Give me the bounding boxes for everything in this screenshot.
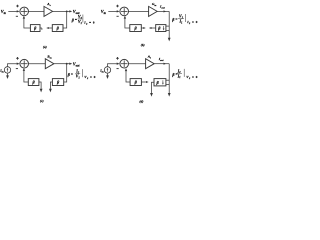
feedback network beta sensing box (d) [154, 79, 166, 86]
feedback network beta sensing box (c) [52, 79, 63, 86]
wire amplifier to output node (c) [54, 63, 67, 65]
amplifier G_m (b) [149, 6, 158, 16]
ground arrow at output (d) [168, 93, 171, 97]
caption (c) [40, 99, 44, 103]
wire amplifier to output corner with current arrow (b) [157, 10, 169, 12]
ground arrow at output (b) [168, 38, 171, 42]
current source Iin (d) [104, 67, 110, 73]
wire feedback box to summer with arrow (a) [23, 16, 31, 28]
summing junction (d) [120, 59, 129, 68]
wire Vin to summing junction (b) [108, 10, 119, 12]
feedback network beta return box (b) [130, 25, 142, 32]
amplifier A_i (d) [146, 59, 155, 69]
svg-text:=: = [71, 73, 73, 77]
svg-text:β: β [32, 80, 36, 85]
open port stub with right arrow (d) [141, 81, 148, 83]
svg-text:V1: V1 [76, 74, 81, 80]
plus sign at summer input (d) [116, 57, 119, 60]
node Vout label (a) [73, 9, 80, 15]
label G_m [152, 2, 157, 7]
label Iout (d) [158, 57, 164, 62]
arrow V2 output of beta network pointing left (a) [46, 27, 52, 29]
label A_v [46, 2, 51, 7]
wire current source to summer (c) [8, 63, 20, 67]
svg-text:Vout: Vout [73, 61, 80, 67]
svg-text:Vin: Vin [101, 9, 107, 15]
wire output down through feedback port to ground (b) [168, 11, 170, 38]
svg-text:Av: Av [46, 2, 51, 7]
current source Iin label (d) [99, 68, 104, 73]
svg-text:β: β [157, 26, 161, 31]
plus sign at summer input (a) [16, 5, 19, 8]
svg-text:β: β [156, 80, 160, 85]
svg-text:Iin: Iin [0, 68, 4, 73]
node Vin (panel b input label) [101, 9, 107, 15]
svg-text:Iin: Iin [99, 68, 104, 73]
shorted port stub to ground (d) [150, 82, 154, 96]
arrow to Vout (a) [67, 10, 73, 12]
wire summer to amplifier (b) [129, 10, 149, 12]
current arrow inside beta box (b) [163, 26, 165, 31]
svg-text:Ai: Ai [147, 54, 151, 59]
minus sign at feedback input (b) [117, 15, 119, 17]
wire summer to amplifier (a) [29, 10, 45, 12]
formula beta = I2/V1 at V2=0 (c) [67, 69, 96, 80]
minus sign at feedback input (a) [16, 15, 18, 17]
feedback network beta sensing box (a) [52, 25, 63, 32]
wire amplifier to output corner with current arrow (d) [154, 63, 169, 65]
svg-text:Vin: Vin [1, 9, 7, 15]
wire summer to amplifier (d) [129, 63, 146, 65]
svg-text:I2 = 0: I2 = 0 [83, 21, 95, 26]
summing junction (a) [20, 7, 29, 16]
node Vin (panel a input label) [1, 9, 7, 15]
current arrow inside beta box (d) [162, 80, 164, 85]
amplifier A_v (a) [44, 6, 53, 16]
svg-text:Gm: Gm [152, 2, 157, 7]
label R_m [47, 54, 51, 59]
svg-text:V2 = 0: V2 = 0 [186, 75, 198, 80]
shorted port stub to ground (c left) [39, 82, 43, 92]
wire feedback box to summer with arrow (b) [124, 16, 130, 28]
svg-text:Iout: Iout [159, 5, 165, 10]
summing junction (b) [120, 7, 129, 16]
svg-text:β: β [134, 80, 138, 85]
output node junction dot (a) [66, 10, 68, 12]
feedback network beta return box (d) [130, 79, 141, 86]
wire feedback box to summer with arrow (c) [23, 68, 29, 82]
feedback network beta return box (a) [30, 25, 40, 32]
svg-text:β: β [56, 80, 60, 85]
amplifier R_m (c) [45, 59, 54, 69]
feedback network beta return box (c) [28, 79, 39, 86]
svg-text:I2 = 0: I2 = 0 [186, 20, 198, 25]
svg-text:(d): (d) [139, 100, 143, 104]
minus sign at feedback input (d) [117, 68, 119, 70]
svg-text:(b): (b) [141, 43, 145, 47]
summing junction (c) [20, 59, 29, 68]
feedback network beta sensing box (b) [156, 25, 166, 32]
ground arrow below current source (d) [106, 73, 109, 79]
svg-text:=: = [175, 17, 177, 21]
svg-text:(c): (c) [40, 99, 44, 103]
formula beta = V2/I1 at I2=0 (b) [171, 13, 198, 24]
label A_i [147, 54, 151, 59]
node Vout label (c) [73, 61, 80, 67]
caption (a) [43, 45, 47, 49]
svg-text:(a): (a) [43, 45, 47, 49]
open port stub with tick (a) [40, 28, 42, 30]
label Iout (b) [159, 5, 165, 10]
arrow to Vout (c) [67, 63, 73, 65]
current source Iin label (c) [0, 68, 4, 73]
svg-text:Iout: Iout [158, 57, 164, 62]
svg-text:β: β [33, 26, 37, 31]
wire output node down to feedback network (c) [64, 64, 67, 82]
wire output node down to feedback network (a) [63, 11, 67, 28]
svg-text:V2 = 0: V2 = 0 [84, 75, 96, 80]
svg-text:Rm: Rm [47, 54, 51, 59]
svg-text:=: = [75, 18, 77, 22]
open port stub with right arrow (b) [141, 27, 146, 29]
ground arrow below current source (c) [6, 73, 9, 79]
output node junction dot (c) [66, 63, 68, 65]
wire summer to amplifier (c) [29, 63, 46, 65]
caption (d) [139, 100, 143, 104]
arrow V2 output of beta network pointing left (b) [149, 27, 156, 29]
wire output down through feedback port to ground (d) [168, 64, 170, 93]
svg-text:β: β [56, 26, 60, 31]
caption (b) [141, 43, 145, 47]
shorted port stub to ground (c right) [49, 82, 52, 92]
plus sign at summer input (c) [16, 57, 19, 60]
current source Iin (c) [4, 67, 10, 73]
minus sign at feedback input (c) [16, 68, 18, 70]
wire Vin to summing junction (a) [8, 10, 19, 12]
formula beta = V2/V1 at I2=0 (a) [71, 14, 95, 25]
svg-text:β: β [133, 26, 137, 31]
plus sign at summer input (b) [116, 5, 119, 8]
formula beta = I2/I1 at V2=0 (d) [171, 68, 197, 79]
wire current source to summer (d) [108, 63, 120, 67]
port stubs to output wire (b) [166, 26, 169, 30]
wire amplifier to output node (a) [53, 10, 67, 12]
port stubs to output wire (d) [166, 80, 169, 84]
wire feedback box to summer with arrow (d) [125, 68, 130, 82]
